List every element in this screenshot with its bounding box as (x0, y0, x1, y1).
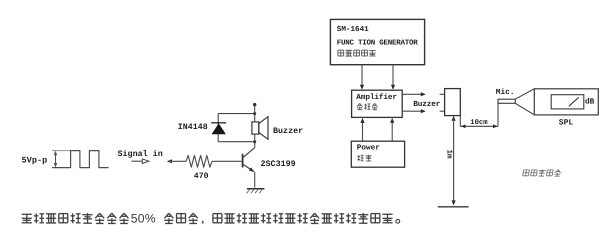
buzzer BZ1 coil box (252, 122, 259, 134)
caption CJK part 3 (213, 214, 222, 223)
SPL meter body (534, 89, 598, 115)
diode loop top wire (218, 113, 255, 115)
svg-text:50%: 50% (131, 212, 156, 226)
amplifier box U2 (352, 90, 403, 117)
square wave signal (52, 151, 109, 168)
svg-text:Signal in: Signal in (118, 149, 163, 159)
caption CJK part 2 (164, 213, 173, 223)
caption period (396, 219, 400, 223)
svg-text:SM-1641: SM-1641 (337, 25, 369, 34)
buzzer box corner drop wire (459, 116, 461, 127)
label CJK signal generator (338, 50, 344, 56)
wire FG to amp 1 (361, 65, 363, 87)
caption comma (202, 220, 204, 223)
svg-text:10cm: 10cm (470, 119, 488, 127)
svg-text:dB: dB (585, 97, 595, 106)
meter cone top line (515, 89, 534, 99)
power box U3 (351, 141, 404, 167)
signal arrow amp to buzzer bottom (402, 110, 421, 112)
svg-text:FUNC TION GENERATOR: FUNC TION GENERATOR (337, 38, 419, 47)
svg-text:1m: 1m (444, 149, 452, 159)
10cm dimension line (460, 125, 498, 127)
SPL meter display (551, 95, 584, 109)
svg-text:Amplifier: Amplifier (356, 93, 397, 102)
junction dot bottom (253, 140, 256, 143)
diode loop left wire (217, 114, 219, 142)
svg-text:Buzzer: Buzzer (413, 100, 440, 109)
meter cone bottom line (515, 103, 534, 115)
signal arrow amp to buzzer top (402, 93, 421, 95)
meter needle (569, 97, 579, 106)
resistor R1 zigzag (186, 155, 212, 167)
collector wire up (254, 104, 256, 147)
caption CJK part 1 (22, 214, 32, 223)
wire input with left arrowhead (167, 159, 172, 163)
diode D1 triangle (212, 123, 226, 134)
svg-text:5Vp-p: 5Vp-p (22, 155, 48, 165)
label CJK amplifier (357, 103, 362, 109)
svg-text:Power: Power (357, 143, 380, 152)
label CJK power (357, 155, 363, 161)
wire resistor to base (212, 160, 242, 162)
svg-text:Buzzer: Buzzer (273, 126, 303, 136)
wire power to amp 1 (362, 121, 364, 142)
transistor emitter lead with arrow (244, 165, 255, 172)
wire FG to amp 2 (392, 65, 394, 87)
svg-text:Mic.: Mic. (496, 88, 515, 97)
transistor Q1 base bar (242, 154, 244, 168)
function generator box U1 (330, 19, 424, 64)
transistor collector lead (244, 148, 255, 158)
diode D1 cathode bar (211, 122, 226, 124)
microphone body (498, 99, 515, 103)
label CJK test diagram (523, 170, 530, 176)
svg-text:470: 470 (194, 172, 209, 181)
svg-text:2SC3199: 2SC3199 (261, 159, 296, 169)
wire power to amp 2 (391, 121, 393, 142)
ground symbol (247, 188, 265, 190)
mic stand wire (497, 103, 499, 126)
svg-text:SPL: SPL (559, 118, 574, 127)
junction dot top (253, 112, 256, 115)
dimension arrow 5Vp-p amplitude (55, 152, 57, 166)
dimension extension line top (52, 150, 71, 152)
buzzer box right (445, 89, 461, 116)
emitter wire down (254, 172, 256, 188)
signal-in arrow (132, 160, 143, 162)
floor line (438, 206, 469, 208)
supply terminal dot (253, 103, 256, 106)
height dimension line (452, 116, 456, 121)
buzzer BZ1 cone (259, 117, 268, 140)
diode loop bottom wire (218, 141, 255, 143)
svg-text:IN4148: IN4148 (178, 123, 208, 132)
